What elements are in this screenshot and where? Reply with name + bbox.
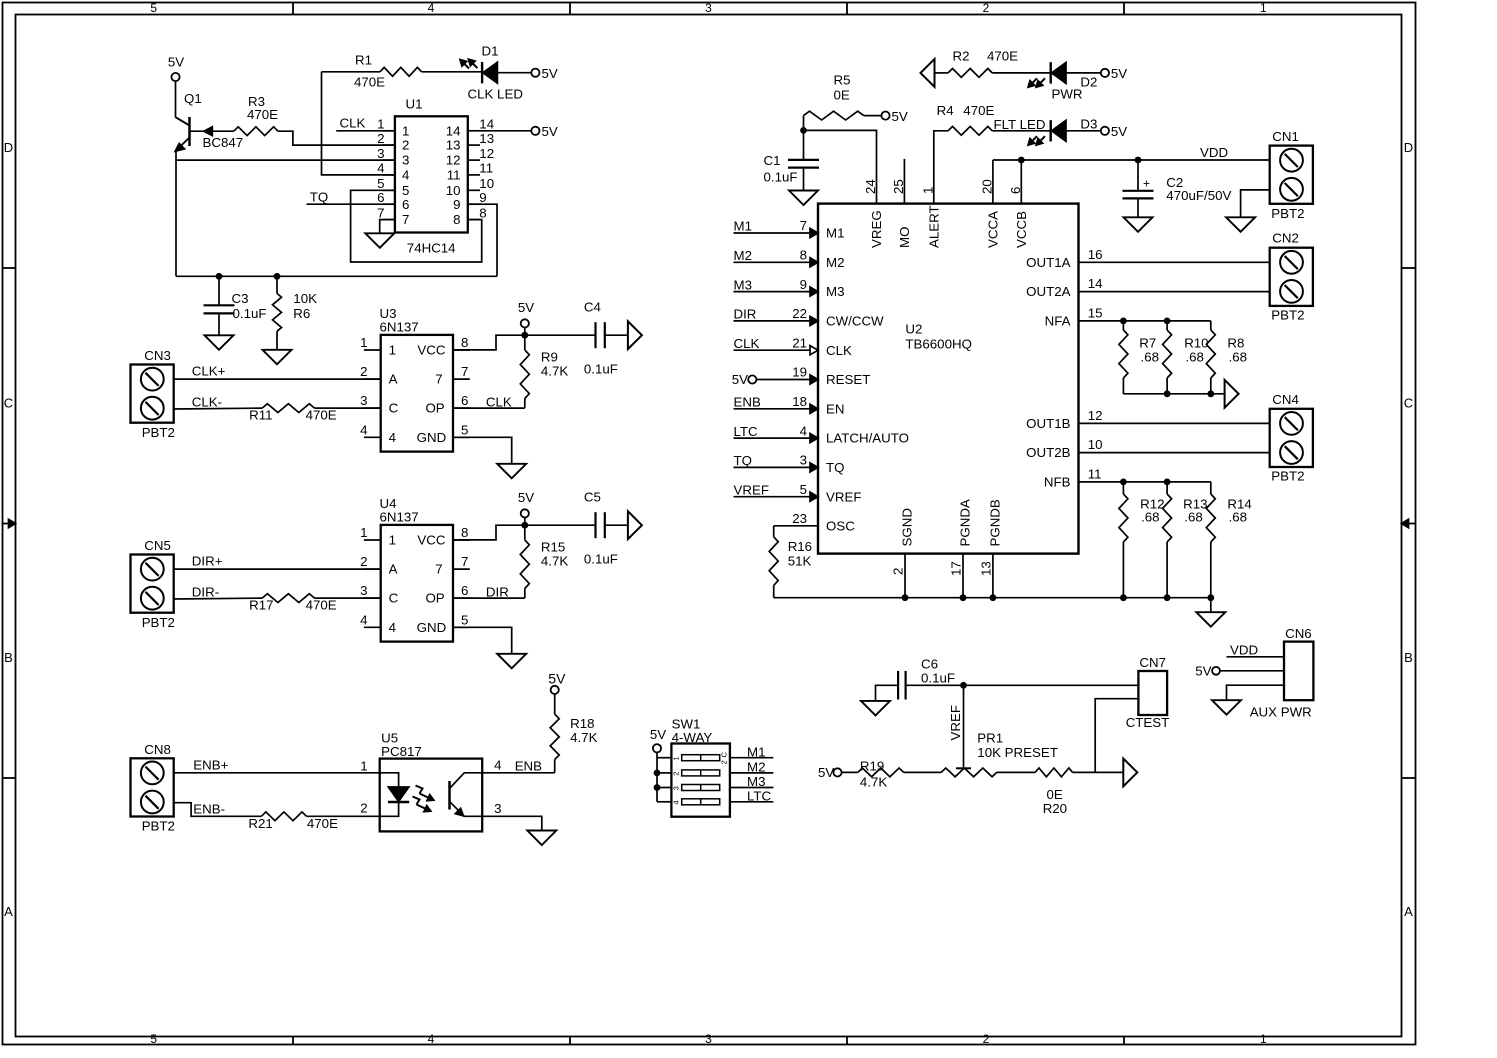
svg-text:10: 10 [479, 176, 494, 191]
wire U4 GND to ground [453, 627, 512, 654]
svg-text:CN1: CN1 [1272, 129, 1299, 144]
svg-text:0.1uF: 0.1uF [921, 670, 955, 685]
svg-text:C: C [719, 752, 728, 758]
label R10 [1184, 336, 1208, 365]
opto LED U5 [388, 787, 409, 802]
svg-text:3: 3 [402, 153, 409, 168]
label C3 [232, 291, 267, 321]
svg-text:BC847: BC847 [203, 135, 244, 150]
svg-text:TQ: TQ [734, 453, 752, 468]
svg-text:R16: R16 [788, 539, 812, 554]
label Q1 [184, 91, 202, 106]
5V supply D3 [1101, 124, 1127, 139]
svg-text:U1: U1 [406, 97, 423, 112]
wire ALERT up [934, 131, 948, 204]
label CN6 [1285, 626, 1312, 641]
U5 internal LED wires [380, 773, 399, 817]
svg-text:6N137: 6N137 [380, 320, 419, 335]
5V supply R19 [818, 765, 842, 780]
junction R13 [1164, 479, 1171, 486]
junction VCCB [1018, 157, 1025, 164]
label R19 [860, 758, 887, 789]
label CN5 [144, 538, 171, 553]
svg-text:2: 2 [360, 800, 367, 815]
svg-text:5V: 5V [518, 300, 534, 315]
wire R3 to U1 pin2 [278, 131, 395, 145]
label FLT LED [994, 117, 1046, 132]
port arrow C5 [628, 511, 642, 539]
svg-text:2: 2 [360, 554, 367, 569]
label CN2 [1272, 231, 1299, 246]
svg-text:U2: U2 [905, 322, 922, 337]
svg-text:ENB: ENB [515, 758, 542, 773]
svg-text:0.1uF: 0.1uF [764, 170, 798, 185]
net label ENB+ [193, 757, 228, 772]
svg-text:2: 2 [983, 1032, 990, 1046]
junction SW1 row3 [654, 784, 661, 791]
wire 5V to CN6 [1220, 670, 1284, 672]
label R4 [937, 103, 995, 118]
label CLK LED [468, 87, 523, 102]
svg-text:PR1: PR1 [977, 731, 1003, 746]
resistor R2 [948, 69, 992, 78]
svg-text:M2: M2 [826, 255, 844, 270]
phototransistor U5 [450, 773, 483, 817]
svg-text:5: 5 [377, 176, 384, 191]
ground NFB rail [1196, 612, 1225, 627]
svg-text:10: 10 [1088, 437, 1103, 452]
label PWR [1052, 86, 1083, 101]
svg-text:2: 2 [891, 568, 906, 575]
svg-text:M1: M1 [734, 219, 752, 234]
svg-text:7: 7 [461, 364, 468, 379]
svg-text:A: A [1404, 904, 1413, 919]
capacitor C1 [788, 130, 819, 190]
5V supply Q1 [168, 55, 184, 82]
svg-text:VREF: VREF [826, 489, 861, 504]
svg-text:8: 8 [453, 212, 460, 227]
U4 right pins [417, 525, 470, 635]
label D1 [482, 43, 499, 58]
svg-text:OUT1B: OUT1B [1026, 416, 1070, 431]
LED D3 [1051, 120, 1066, 141]
svg-text:VCC: VCC [417, 343, 445, 358]
svg-text:4.7K: 4.7K [860, 774, 887, 789]
wire R21 to U5 [307, 815, 380, 817]
wire CLK- left [174, 407, 263, 410]
svg-text:OUT1A: OUT1A [1026, 255, 1070, 270]
wire R9 to U3 OP [453, 407, 525, 409]
svg-text:20: 20 [979, 179, 994, 194]
net label CLK- [192, 395, 222, 410]
connector CN5 [131, 555, 174, 613]
svg-text:.68: .68 [1184, 510, 1203, 525]
junction R6 [274, 273, 281, 280]
wire U1 pin14 to 5V [480, 130, 531, 132]
svg-text:7: 7 [800, 218, 807, 233]
svg-text:5V: 5V [818, 765, 834, 780]
ground U4 [497, 654, 526, 669]
label CN7 [1139, 655, 1166, 670]
svg-text:470E: 470E [963, 103, 994, 118]
5V supply U3 [518, 300, 534, 335]
connector CN2 [1270, 248, 1313, 306]
junction U4 5V [521, 522, 528, 529]
pin SGND stub [904, 554, 906, 598]
5V supply R18 [548, 671, 566, 695]
svg-text:R20: R20 [1043, 801, 1067, 816]
svg-text:4: 4 [360, 422, 367, 437]
connector CN1 [1270, 146, 1313, 204]
svg-text:CN2: CN2 [1272, 231, 1299, 246]
svg-text:.68: .68 [1185, 350, 1204, 365]
svg-text:5: 5 [150, 1, 157, 15]
ground CN1 [1226, 217, 1255, 232]
svg-text:CLK: CLK [826, 343, 852, 358]
potentiometer PR1 wiper [956, 767, 971, 769]
U3 left pins [360, 335, 399, 445]
wire R2 to D2 [992, 72, 1050, 74]
frame center arrow left [2, 519, 16, 527]
net label DIR- [192, 585, 219, 600]
svg-text:CN7: CN7 [1139, 655, 1166, 670]
svg-text:16: 16 [1088, 247, 1103, 262]
label C5 [584, 490, 618, 567]
svg-text:3: 3 [800, 453, 807, 468]
wire R5 to 5V [864, 115, 882, 117]
label 74HC14 [407, 240, 456, 255]
ground U1 pin7 [365, 233, 394, 248]
svg-text:13: 13 [978, 561, 993, 576]
svg-text:1: 1 [672, 756, 681, 760]
svg-text:7: 7 [461, 554, 468, 569]
wire R15 to U4 OP [453, 597, 525, 599]
svg-text:D: D [4, 140, 13, 155]
svg-text:470E: 470E [307, 816, 338, 831]
svg-text:24: 24 [863, 179, 878, 194]
svg-text:PWR: PWR [1052, 86, 1083, 101]
svg-text:3: 3 [360, 583, 367, 598]
svg-text:A: A [4, 904, 13, 919]
label C1 [764, 153, 798, 185]
junction C1 [800, 127, 807, 134]
wire C6 left [876, 685, 899, 701]
resistor R4 [948, 126, 992, 135]
svg-text:CLK: CLK [734, 336, 760, 351]
label R9 [541, 350, 568, 379]
svg-text:R6: R6 [293, 306, 310, 321]
svg-text:5V: 5V [650, 727, 666, 742]
svg-text:2: 2 [360, 364, 367, 379]
svg-text:0.1uF: 0.1uF [233, 306, 267, 321]
svg-text:M3: M3 [747, 774, 765, 789]
svg-text:74HC14: 74HC14 [407, 240, 456, 255]
svg-text:R10: R10 [1184, 336, 1208, 351]
svg-text:4: 4 [377, 161, 384, 176]
svg-text:2: 2 [402, 138, 409, 153]
port arrow VREF [1123, 759, 1137, 787]
resistor R15 [520, 525, 529, 598]
LED D2 [1051, 62, 1066, 83]
svg-text:23: 23 [792, 511, 807, 526]
svg-text:8: 8 [461, 335, 468, 350]
svg-text:1: 1 [920, 187, 935, 194]
svg-text:RESET: RESET [826, 372, 870, 387]
svg-text:7: 7 [435, 562, 442, 577]
junction NFA rail R8 [1207, 390, 1214, 397]
U1 left pin stubs [383, 131, 395, 220]
svg-text:2: 2 [983, 1, 990, 15]
label R1 [354, 53, 385, 90]
svg-text:.68: .68 [1229, 350, 1248, 365]
label R12 [1140, 496, 1164, 524]
svg-text:ENB+: ENB+ [193, 757, 228, 772]
svg-text:3: 3 [705, 1032, 712, 1046]
label R13 [1183, 496, 1207, 524]
switch SW1 box [671, 744, 730, 817]
resistor R21 [261, 812, 306, 821]
svg-text:1: 1 [360, 525, 367, 540]
svg-text:15: 15 [1088, 305, 1103, 320]
svg-text:CN3: CN3 [144, 348, 171, 363]
svg-text:470E: 470E [306, 408, 337, 423]
label U3 [380, 306, 419, 335]
connector CN7 [1138, 671, 1167, 715]
svg-text:3: 3 [672, 786, 681, 790]
U5 pin numbers [360, 758, 501, 817]
ground C3 [205, 335, 234, 350]
net label TQ U1 [310, 190, 328, 205]
resistor R20 [1035, 768, 1072, 777]
svg-text:5: 5 [461, 422, 468, 437]
svg-text:18: 18 [792, 394, 807, 409]
SW1 common stubs [657, 758, 671, 802]
wire Q1 base to R3 [190, 130, 234, 132]
label CN1 [1272, 129, 1299, 144]
pin MO stub [903, 159, 905, 204]
ground C6 [861, 701, 890, 716]
svg-text:CLK+: CLK+ [192, 364, 226, 379]
svg-text:470uF/50V: 470uF/50V [1166, 188, 1231, 203]
transistor Q1 [175, 117, 189, 151]
svg-text:.68: .68 [1141, 510, 1160, 525]
label D2 [1080, 74, 1097, 89]
svg-text:CN8: CN8 [144, 742, 171, 757]
svg-text:CN4: CN4 [1272, 392, 1299, 407]
junction PGNDA rail [960, 594, 967, 601]
base arrow Q1 [204, 127, 213, 136]
junction U3 5V [521, 332, 528, 339]
resistor R9 [520, 335, 529, 408]
svg-text:C3: C3 [232, 291, 249, 306]
svg-text:5: 5 [402, 183, 409, 198]
svg-text:D: D [1404, 140, 1413, 155]
svg-text:6: 6 [377, 190, 384, 205]
U1 left pin numbers [377, 117, 409, 228]
svg-text:1: 1 [360, 335, 367, 350]
svg-text:17: 17 [949, 561, 964, 576]
svg-text:C4: C4 [584, 300, 601, 315]
IC U3 6N137 box [381, 335, 453, 452]
label R20 [1043, 787, 1067, 816]
5V supply U1 pin14 [531, 124, 558, 139]
wire 5V to R19 [842, 771, 858, 773]
svg-text:21: 21 [792, 335, 807, 350]
svg-text:4: 4 [389, 620, 396, 635]
svg-text:4: 4 [389, 430, 396, 445]
net label CLK out [486, 394, 512, 409]
svg-text:D2: D2 [1080, 74, 1097, 89]
U2 left pins with labels [734, 218, 910, 504]
IC U4 6N137 box [381, 525, 453, 642]
svg-text:PC817: PC817 [381, 744, 422, 759]
label PBT2 CN3 [142, 425, 175, 440]
svg-text:CLK: CLK [486, 394, 512, 409]
resistor R17 [262, 594, 314, 603]
junction SGND rail [902, 594, 909, 601]
net label ENB out [515, 758, 542, 773]
wire U5 pin3 to ground [482, 816, 542, 830]
svg-text:1: 1 [389, 343, 396, 358]
svg-text:LTC: LTC [747, 789, 772, 804]
junction R7 [1120, 318, 1127, 325]
wire R20 to port [1073, 771, 1124, 773]
pin PGNDA stub [962, 554, 964, 598]
emission arrows D3 [1028, 136, 1046, 146]
svg-text:A: A [389, 372, 398, 387]
svg-text:M3: M3 [826, 284, 844, 299]
wire VDD to CN6 [1227, 656, 1285, 658]
frame center arrow right [1402, 519, 1416, 527]
svg-text:DIR+: DIR+ [192, 554, 223, 569]
svg-text:VREF: VREF [948, 705, 963, 740]
svg-text:10K: 10K [293, 291, 317, 306]
svg-text:2: 2 [672, 772, 681, 776]
IC U2 TB6600HQ box [818, 204, 1079, 554]
wire port to R2 [935, 72, 949, 74]
svg-text:+: + [1143, 177, 1150, 191]
svg-text:NFA: NFA [1045, 314, 1071, 329]
U2 right pins with labels [1026, 247, 1270, 490]
svg-text:CLK-: CLK- [192, 395, 222, 410]
label CTEST [1126, 715, 1170, 730]
svg-text:R21: R21 [248, 816, 272, 831]
svg-text:12: 12 [479, 146, 494, 161]
U3 right pins [417, 335, 470, 445]
junction VREF [960, 682, 967, 689]
wire D1 to 5V [497, 72, 531, 74]
svg-text:7: 7 [402, 212, 409, 227]
svg-text:4.7K: 4.7K [570, 730, 597, 745]
wire SW1 common [656, 752, 658, 801]
svg-text:R5: R5 [834, 73, 851, 88]
svg-text:11: 11 [447, 168, 461, 183]
U2 top pin labels [869, 205, 1029, 248]
IC U1 74HC14 box [395, 116, 468, 232]
wire DIR+ to U4 [174, 568, 381, 570]
net label CLK [340, 116, 366, 131]
net label VDD CN6 [1230, 643, 1258, 658]
U4 left pins [360, 525, 399, 635]
svg-text:5V: 5V [542, 66, 558, 81]
junction SW1 row2 [654, 770, 661, 777]
svg-text:5V: 5V [1111, 124, 1127, 139]
svg-text:VDD: VDD [1200, 145, 1228, 160]
wire D3 to 5V [1066, 130, 1101, 132]
svg-text:VCC: VCC [417, 533, 445, 548]
svg-text:5V: 5V [168, 55, 184, 70]
label R18 [570, 716, 597, 745]
label D3 [1080, 117, 1097, 132]
wire R1 left [322, 71, 381, 73]
net label CLK+ [192, 364, 226, 379]
wire rail to ground [1210, 598, 1212, 613]
label R2 [953, 49, 1019, 64]
wire 5V to C5 [525, 524, 596, 526]
label U1 [406, 97, 423, 112]
svg-text:DIR: DIR [734, 307, 757, 322]
U2 bottom pin numbers [891, 561, 994, 576]
svg-text:7: 7 [377, 205, 384, 220]
wire U1 pin9 down [468, 204, 497, 276]
wire bottom rail Q1 [176, 275, 497, 277]
wire U4 VCC to 5V [453, 525, 525, 540]
U1 right pin numbers [446, 117, 494, 228]
junction R14 rail [1207, 594, 1214, 601]
junction R13 rail [1164, 594, 1171, 601]
label R21 [248, 816, 338, 831]
svg-text:0E: 0E [834, 88, 850, 103]
svg-text:GND: GND [417, 430, 447, 445]
svg-text:PBT2: PBT2 [142, 615, 175, 630]
resistor R3 [234, 127, 278, 136]
label R15 [541, 540, 568, 569]
svg-text:MO: MO [897, 227, 912, 248]
svg-text:PBT2: PBT2 [142, 425, 175, 440]
label OSC pin [792, 511, 855, 533]
wire R4 to D3 [992, 130, 1050, 132]
wire VCCA VCCB rail [993, 160, 1270, 204]
svg-text:M3: M3 [734, 277, 752, 292]
svg-text:470E: 470E [306, 598, 337, 613]
svg-text:2: 2 [719, 760, 728, 764]
svg-text:C: C [4, 396, 13, 411]
svg-text:.68: .68 [1229, 510, 1248, 525]
wire CLK+ to U3 [174, 378, 381, 380]
svg-text:CN6: CN6 [1285, 626, 1312, 641]
wire 5V to C4 [525, 334, 596, 336]
wire ENB- left [174, 803, 262, 817]
ground C1 [789, 191, 818, 206]
svg-text:D1: D1 [482, 43, 499, 58]
wire DIR- left [174, 597, 263, 600]
svg-text:PBT2: PBT2 [1271, 206, 1304, 221]
label PBT2 CN8 [142, 819, 175, 834]
SW1 output wires [730, 744, 774, 803]
svg-text:22: 22 [792, 306, 807, 321]
svg-text:R2: R2 [953, 49, 970, 64]
svg-text:FLT LED: FLT LED [994, 117, 1046, 132]
svg-text:8: 8 [479, 205, 486, 220]
svg-text:LATCH/AUTO: LATCH/AUTO [826, 431, 909, 446]
connector CN4 [1270, 409, 1313, 467]
resistor R10 [1163, 321, 1172, 394]
label R17 [249, 598, 337, 613]
svg-text:PGNDB: PGNDB [987, 499, 1002, 546]
svg-text:11: 11 [1088, 466, 1102, 481]
label CN4 [1272, 392, 1299, 407]
wire 5V to Q1 collector [175, 81, 177, 117]
